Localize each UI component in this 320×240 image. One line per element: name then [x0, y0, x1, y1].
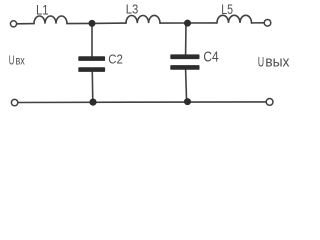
svg-text:вых: вых: [265, 53, 290, 70]
inductor L5: [217, 15, 252, 23]
wire C2 bottom plate to bottom rail: [91, 72, 94, 102]
svg-text:L1: L1: [36, 3, 49, 18]
capacitor C4 bottom plate: [170, 65, 199, 70]
terminal circle bottom-left: [11, 99, 17, 105]
inductor L3: [126, 15, 160, 23]
wire C4 bottom plate to bottom rail: [186, 70, 187, 102]
wire node A to L3: [92, 22, 126, 24]
svg-text:вх: вх: [16, 54, 26, 68]
terminal circle top-right: [264, 20, 271, 27]
terminal circle bottom-right: [266, 99, 273, 106]
junction node A (top, L1/L3/C2): [89, 20, 96, 27]
bottom rail wire: [18, 101, 266, 104]
junction bottom under C2: [89, 99, 96, 106]
svg-text:C4: C4: [203, 50, 218, 66]
svg-text:C2: C2: [108, 53, 123, 67]
svg-text:L5: L5: [221, 1, 233, 17]
junction node B (top, L3/L5/C4): [184, 20, 191, 27]
capacitor C2 bottom plate: [78, 67, 105, 72]
wire node A to C2 top plate: [91, 23, 93, 56]
wire L3 to node B: [160, 22, 188, 24]
wire node B to L5: [188, 22, 218, 24]
terminal circle top-left: [10, 21, 16, 27]
wire L1 to node A: [67, 22, 92, 24]
svg-text:U: U: [9, 53, 15, 68]
junction bottom under C4: [184, 98, 191, 105]
capacitor C4 top plate: [170, 54, 199, 59]
svg-text:U: U: [258, 53, 264, 69]
svg-text:L3: L3: [126, 1, 139, 16]
wire node B to C4 top plate: [185, 23, 187, 54]
wire L5 to top-right terminal: [252, 22, 265, 24]
inductor L1: [34, 16, 67, 24]
wire top-left to L1: [17, 23, 34, 25]
capacitor C2 top plate: [78, 56, 105, 61]
